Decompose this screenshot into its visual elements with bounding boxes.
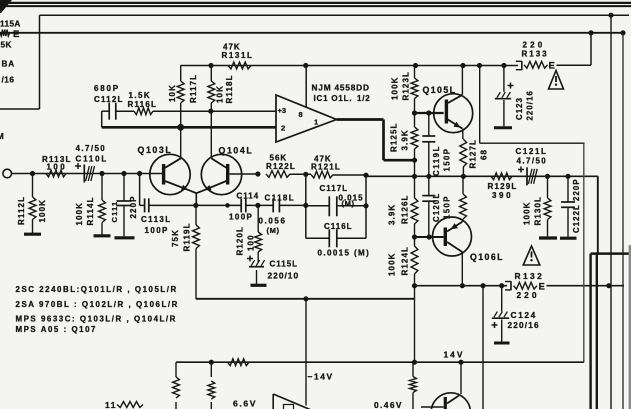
svg-text:2SC 2240BL:Q101L/R , Q105L/R: 2SC 2240BL:Q101L/R , Q105L/R [16, 285, 178, 294]
svg-text:100K: 100K [75, 202, 84, 226]
svg-text:R125L: R125L [390, 122, 399, 152]
svg-text:390: 390 [492, 191, 513, 200]
svg-text:220/10: 220/10 [268, 271, 300, 281]
svg-text:100: 100 [247, 234, 256, 251]
svg-text:C120L: C120L [432, 193, 441, 222]
svg-text:R127L: R127L [469, 139, 478, 169]
svg-text:4.7/50: 4.7/50 [517, 156, 548, 165]
svg-text:4.7/50: 4.7/50 [76, 144, 107, 153]
svg-text:C122L 220P: C122L 220P [572, 178, 581, 233]
svg-text:BA: BA [2, 60, 15, 69]
svg-text:R123L: R123L [402, 71, 411, 101]
svg-text:3.9K: 3.9K [388, 204, 397, 225]
svg-text:10K: 10K [216, 85, 225, 103]
svg-text:R133: R133 [522, 50, 549, 59]
svg-text:/16: /16 [2, 76, 15, 85]
svg-text:115A: 115A [0, 20, 21, 29]
svg-text:Q103L: Q103L [138, 145, 173, 155]
svg-text:R112L: R112L [17, 196, 26, 225]
svg-text:100K: 100K [391, 76, 400, 100]
svg-text:C124: C124 [511, 310, 537, 320]
svg-text:C113L: C113L [141, 215, 172, 224]
svg-text:C123: C123 [515, 97, 524, 120]
svg-text:IC1 O1L.: IC1 O1L. [314, 94, 353, 103]
svg-text:220: 220 [517, 290, 540, 300]
svg-text:2: 2 [281, 124, 285, 133]
svg-text:M: M [0, 132, 5, 141]
svg-text:+3: +3 [278, 106, 287, 115]
svg-text:1.5K: 1.5K [129, 91, 152, 100]
svg-text:0.46V: 0.46V [374, 400, 403, 409]
svg-text:R130L: R130L [534, 196, 543, 226]
svg-text:150P: 150P [443, 195, 452, 219]
svg-text:C114: C114 [237, 191, 260, 200]
svg-text:C112L: C112L [94, 95, 124, 104]
svg-text:220/16: 220/16 [526, 90, 535, 120]
svg-text:C118L: C118L [265, 193, 296, 202]
svg-text:(M): (M) [267, 226, 280, 235]
svg-text:NJM 4558DD: NJM 4558DD [312, 83, 370, 93]
svg-text:2SA 970BL : Q102L/R , Q106L/R: 2SA 970BL : Q102L/R , Q106L/R [16, 300, 179, 309]
svg-text:R132: R132 [515, 271, 545, 281]
svg-text:(M): (M) [342, 199, 355, 208]
svg-text:220/16: 220/16 [508, 321, 540, 330]
svg-text:0.056: 0.056 [259, 217, 287, 226]
svg-text:−14V: −14V [308, 372, 334, 382]
svg-text:R129L: R129L [488, 182, 518, 191]
svg-text:8: 8 [299, 110, 303, 119]
svg-text:68: 68 [480, 149, 489, 160]
svg-text:100K: 100K [38, 199, 47, 223]
svg-text:C110L: C110L [76, 155, 109, 164]
svg-text:R120L: R120L [236, 226, 245, 256]
svg-text:R121L: R121L [311, 162, 341, 171]
svg-text:C115L: C115L [270, 260, 299, 269]
svg-text:R126L: R126L [401, 194, 410, 224]
svg-text:C116L: C116L [324, 222, 353, 231]
svg-text:R116L: R116L [128, 100, 158, 109]
svg-text:C117L: C117L [320, 184, 349, 193]
svg-text:3.9K: 3.9K [401, 129, 410, 150]
svg-text:100P: 100P [145, 226, 169, 235]
svg-text:10K: 10K [168, 84, 177, 102]
svg-text:MPS 9633C: Q103L/R , Q104L/R: MPS 9633C: Q103L/R , Q104L/R [16, 315, 177, 324]
svg-text:R122L: R122L [266, 162, 296, 171]
svg-text:R117L: R117L [189, 74, 198, 103]
svg-text:6.6V: 6.6V [233, 399, 257, 409]
svg-text:C121L: C121L [516, 147, 548, 156]
svg-text:E: E [549, 60, 555, 71]
svg-text:680P: 680P [94, 84, 120, 93]
svg-text:220P: 220P [129, 195, 138, 218]
svg-text:MPS A05 : Q107: MPS A05 : Q107 [16, 325, 98, 334]
svg-text:Q105L: Q105L [423, 85, 457, 95]
svg-text:1: 1 [314, 118, 318, 127]
svg-text:Q104L: Q104L [219, 146, 254, 156]
svg-text:R118L: R118L [225, 74, 234, 103]
svg-text:Q106L: Q106L [470, 252, 504, 262]
svg-text:R119L: R119L [183, 222, 192, 251]
svg-text:C119L: C119L [432, 145, 441, 176]
svg-text:100P: 100P [229, 213, 253, 222]
svg-text:R114L: R114L [86, 196, 95, 225]
svg-text:R131L: R131L [222, 51, 254, 60]
svg-text:11: 11 [105, 400, 117, 409]
svg-text:C111: C111 [110, 201, 119, 223]
svg-text:14V: 14V [444, 350, 465, 360]
svg-text:100K: 100K [523, 201, 532, 225]
svg-text:75K: 75K [171, 229, 180, 247]
svg-text:0.0015 (M): 0.0015 (M) [318, 249, 371, 258]
svg-text:5K: 5K [1, 41, 12, 50]
svg-text:1/2: 1/2 [357, 94, 371, 103]
svg-text:100K: 100K [388, 252, 397, 276]
svg-text:E: E [13, 29, 19, 40]
svg-text:220: 220 [523, 41, 546, 50]
svg-text:100: 100 [47, 163, 68, 172]
svg-text:R124L: R124L [401, 246, 410, 276]
svg-text:150P: 150P [443, 148, 452, 172]
